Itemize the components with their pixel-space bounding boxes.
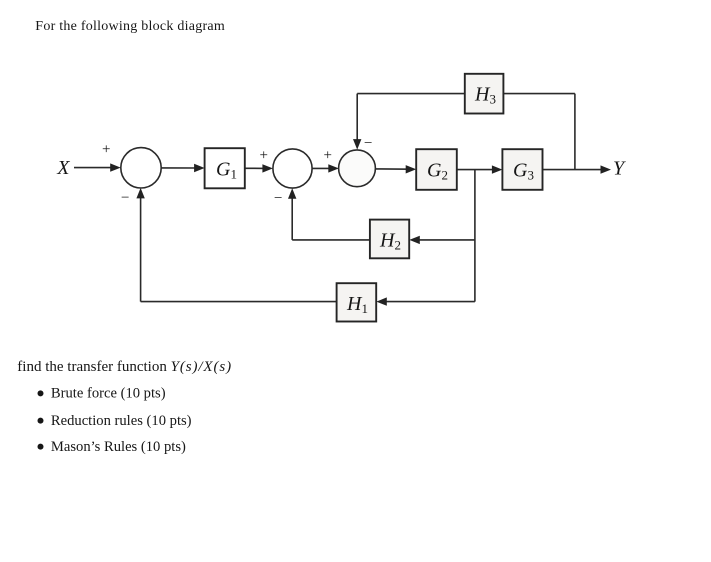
svg-text:−: − [274, 191, 282, 207]
arrowhead into C3 [328, 164, 339, 172]
wire H1 output horizontal [141, 301, 337, 303]
svg-text:Reduction rules (10 pts): Reduction rules (10 pts) [51, 413, 192, 429]
arrowhead left into H1 [376, 297, 387, 305]
wire H3 tap vertical [574, 94, 576, 170]
wire C2 to C3 [312, 167, 332, 169]
arrowhead into G2 [406, 165, 417, 173]
wire H2 H1 tap vertical [474, 170, 476, 302]
svg-text:+: + [260, 148, 268, 164]
arrowhead to Y [601, 165, 612, 173]
wire H3 left horizontal [357, 93, 465, 95]
summing junction C1 [121, 148, 161, 188]
wire G1 to C2 [245, 167, 267, 169]
block H1 [337, 283, 377, 321]
wire C3 to G2 [375, 168, 410, 170]
svg-text:+: + [102, 142, 110, 158]
wire C1 to G1 [161, 167, 198, 169]
wire H2 up into C2 [291, 195, 293, 240]
arrowhead into G1 [194, 164, 205, 172]
summing junction C2 [273, 149, 312, 188]
wire tap to H2 [416, 239, 475, 241]
arrowhead up into C1 bottom [136, 188, 144, 199]
svg-text:find the transfer function Y(s: find the transfer function Y(s)/X(s) [17, 359, 232, 375]
arrowhead into C1 [110, 163, 121, 171]
wire X input [74, 167, 113, 169]
svg-text:+: + [324, 148, 332, 164]
wire G2 to G3 [457, 169, 497, 171]
wire H1 up into C1 [140, 195, 142, 302]
svg-text:X: X [56, 157, 70, 179]
svg-text:Y: Y [613, 158, 626, 180]
arrowhead down into C3 top [353, 139, 361, 150]
svg-text:For the following block diagra: For the following block diagram [35, 19, 225, 34]
wire H2 output horizontal [292, 239, 370, 241]
bullet 1 dot [38, 390, 44, 396]
block G3 [502, 149, 542, 190]
arrowhead left into H2 [409, 236, 420, 244]
block G1 [205, 148, 245, 188]
block H2 [370, 220, 409, 259]
arrowhead into C2 [262, 164, 273, 172]
wire H3 right horizontal [503, 93, 575, 95]
wire tap to H1 [383, 301, 475, 303]
wire H3 down into C3 [356, 94, 358, 143]
summing junction C3 [339, 150, 376, 187]
arrowhead up into C2 bottom [288, 188, 296, 199]
block G2 [416, 149, 457, 190]
svg-text:Brute force (10 pts): Brute force (10 pts) [51, 386, 166, 402]
arrowhead into G3 [492, 165, 503, 173]
svg-text:Mason’s Rules (10 pts): Mason’s Rules (10 pts) [51, 439, 186, 455]
svg-text:−: − [364, 136, 372, 152]
block H3 [465, 74, 504, 114]
bullet 3 dot [38, 444, 44, 450]
wire G3 to Y [543, 169, 606, 171]
bullet 2 dot [38, 418, 44, 424]
svg-text:−: − [121, 190, 129, 206]
